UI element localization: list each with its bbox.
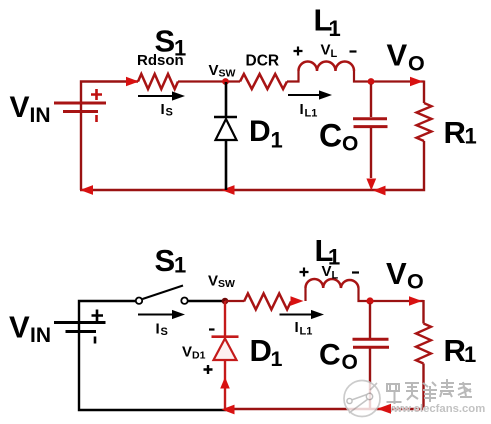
svg-text:D: D bbox=[249, 115, 271, 148]
switch S1 blade bbox=[143, 286, 184, 300]
resistor DCR (bottom) bbox=[244, 294, 291, 310]
svg-text:V: V bbox=[182, 344, 192, 361]
resistor DCR bbox=[240, 74, 287, 89]
watermark hanzi (approximated strokes) bbox=[387, 379, 473, 404]
svg-text:O: O bbox=[408, 52, 425, 76]
capacitor Co plates (bottom) bbox=[353, 338, 389, 341]
wire left rail (battery bottom) bbox=[80, 112, 82, 190]
svg-text:L1: L1 bbox=[300, 326, 313, 338]
label plus at diode bbox=[204, 365, 213, 374]
arrow into top-right corner bbox=[410, 77, 423, 87]
arrow bottom rail at battery corner bbox=[80, 185, 93, 195]
svg-text:L: L bbox=[332, 270, 339, 282]
switch S1 left contact bbox=[136, 298, 142, 304]
watermark logo circle bbox=[344, 381, 380, 417]
svg-text:D1: D1 bbox=[192, 350, 206, 362]
node Vsw dot bbox=[222, 78, 229, 85]
svg-text:V: V bbox=[386, 256, 407, 291]
wire right side down to R1 (bottom) bbox=[422, 300, 424, 324]
battery minus tick (black) bbox=[94, 337, 97, 344]
wire R1 to bottom rail (red) bbox=[225, 364, 424, 410]
label plus VL bbox=[294, 47, 303, 56]
inductor L1 leg left (bottom) bbox=[304, 288, 306, 301]
svg-text:O: O bbox=[407, 270, 424, 294]
svg-text:O: O bbox=[342, 133, 358, 156]
resistor R1 (bottom, vertical) bbox=[416, 324, 431, 364]
battery VIN plates (black) bbox=[54, 321, 106, 324]
diode D1 wire above (red) bbox=[224, 301, 226, 336]
arrow bottom rail near Co (bottom) bbox=[377, 404, 391, 414]
label minus at diode bbox=[209, 328, 215, 330]
wire top-left black: battery to switch bbox=[79, 301, 136, 322]
capacitor Co wires bbox=[370, 84, 372, 117]
arrow bottom rail near Co bbox=[373, 186, 386, 196]
resistor R1 (vertical) bbox=[417, 103, 432, 141]
svg-text:1: 1 bbox=[271, 347, 283, 371]
diode D1 cathode bar bbox=[214, 116, 237, 119]
svg-text:R: R bbox=[444, 115, 466, 150]
svg-text:V: V bbox=[208, 273, 218, 290]
diode D1 triangle bbox=[216, 119, 237, 140]
node Vsw dot (bottom) bbox=[222, 298, 229, 305]
Is arrow (black, bottom) bbox=[138, 314, 174, 316]
arrow bottom rail left of diode junction bbox=[222, 405, 235, 415]
svg-text:I: I bbox=[300, 101, 304, 118]
battery plus sign (red) bbox=[91, 89, 102, 100]
svg-text:1: 1 bbox=[271, 128, 283, 153]
svg-text:SW: SW bbox=[219, 68, 236, 80]
inductor L1 leg right + wire to Vo corner bbox=[359, 288, 424, 301]
svg-text:I: I bbox=[161, 101, 165, 118]
battery plus sign (black) bbox=[92, 310, 104, 322]
node Vo dot bbox=[368, 78, 375, 85]
inductor L1 coil bbox=[299, 62, 355, 72]
label plus VL (bottom) bbox=[300, 268, 309, 277]
svg-text:I: I bbox=[295, 319, 299, 336]
svg-text:1: 1 bbox=[329, 16, 341, 41]
svg-text:V: V bbox=[322, 263, 332, 280]
svg-text:D: D bbox=[250, 333, 272, 368]
svg-text:S: S bbox=[155, 243, 176, 278]
svg-text:L: L bbox=[331, 48, 338, 60]
svg-text:R: R bbox=[444, 333, 466, 368]
wire Rdson to Vsw node to DCR bbox=[178, 80, 240, 82]
capacitor Co plates bbox=[353, 117, 387, 120]
arrow into Rdson (right) bbox=[126, 77, 139, 87]
wire inductor to Vo node and corner bbox=[354, 71, 424, 82]
IL1 arrow (black, bottom) bbox=[280, 314, 313, 316]
wire R1 to bottom rail bbox=[80, 141, 424, 190]
wire right side down to R1 bbox=[423, 81, 425, 104]
battery VIN plates (red) bbox=[54, 102, 106, 105]
svg-text:1: 1 bbox=[174, 253, 186, 278]
svg-text:IN: IN bbox=[30, 324, 51, 347]
wire + arrow into inductor leg bbox=[291, 300, 295, 302]
svg-text:V: V bbox=[387, 38, 408, 73]
Is arrow (black) bbox=[138, 95, 174, 97]
svg-text:DCR: DCR bbox=[246, 53, 280, 70]
svg-text:V: V bbox=[321, 42, 331, 59]
svg-text:1: 1 bbox=[465, 124, 477, 149]
wire top-left: battery top to Rdson bbox=[81, 82, 138, 104]
svg-text:L1: L1 bbox=[305, 108, 318, 120]
capacitor Co wires (bottom) bbox=[369, 303, 371, 338]
svg-text:S: S bbox=[161, 326, 168, 338]
inductor L1 coil (bottom) bbox=[306, 279, 359, 288]
diode D1 triangle (red) bbox=[214, 339, 237, 361]
arrow up on diode branch bbox=[220, 377, 230, 389]
diode D1 wire (black) bbox=[225, 82, 228, 190]
svg-text:O: O bbox=[342, 351, 358, 374]
arrow into top-right corner (bottom) bbox=[409, 296, 422, 306]
wire DCR to inductor bbox=[287, 71, 299, 82]
svg-text:Rdson: Rdson bbox=[137, 52, 184, 69]
svg-text:I: I bbox=[156, 321, 160, 338]
svg-text:C: C bbox=[319, 339, 341, 372]
svg-text:SW: SW bbox=[218, 278, 235, 290]
svg-text:1: 1 bbox=[464, 342, 476, 367]
wire switch to Vsw node (black) bbox=[188, 300, 223, 302]
bottom rail black: battery to diode bbox=[79, 332, 226, 410]
battery minus tick (red) bbox=[95, 115, 98, 122]
arrow bottom rail right of D1 bbox=[222, 185, 235, 195]
IL1 arrow (black) bbox=[288, 94, 321, 96]
wire Vsw to resistor (red) bbox=[225, 300, 244, 302]
node Vo dot (bottom) bbox=[366, 297, 373, 304]
svg-text:C: C bbox=[319, 118, 342, 154]
diode D1 cathode bar (red) bbox=[212, 335, 239, 338]
svg-text:S: S bbox=[166, 107, 173, 119]
arrow down into bottom rail from Co bbox=[366, 179, 376, 191]
svg-text:IN: IN bbox=[30, 104, 51, 127]
diode D1 wire below (red) bbox=[224, 360, 226, 409]
resistor Rdson bbox=[138, 74, 178, 89]
svg-text:V: V bbox=[209, 62, 219, 79]
svg-text:V: V bbox=[9, 310, 30, 345]
svg-text:V: V bbox=[10, 91, 30, 124]
svg-text:www.elecfans.com: www.elecfans.com bbox=[384, 403, 486, 415]
switch S1 right contact bbox=[181, 298, 187, 304]
